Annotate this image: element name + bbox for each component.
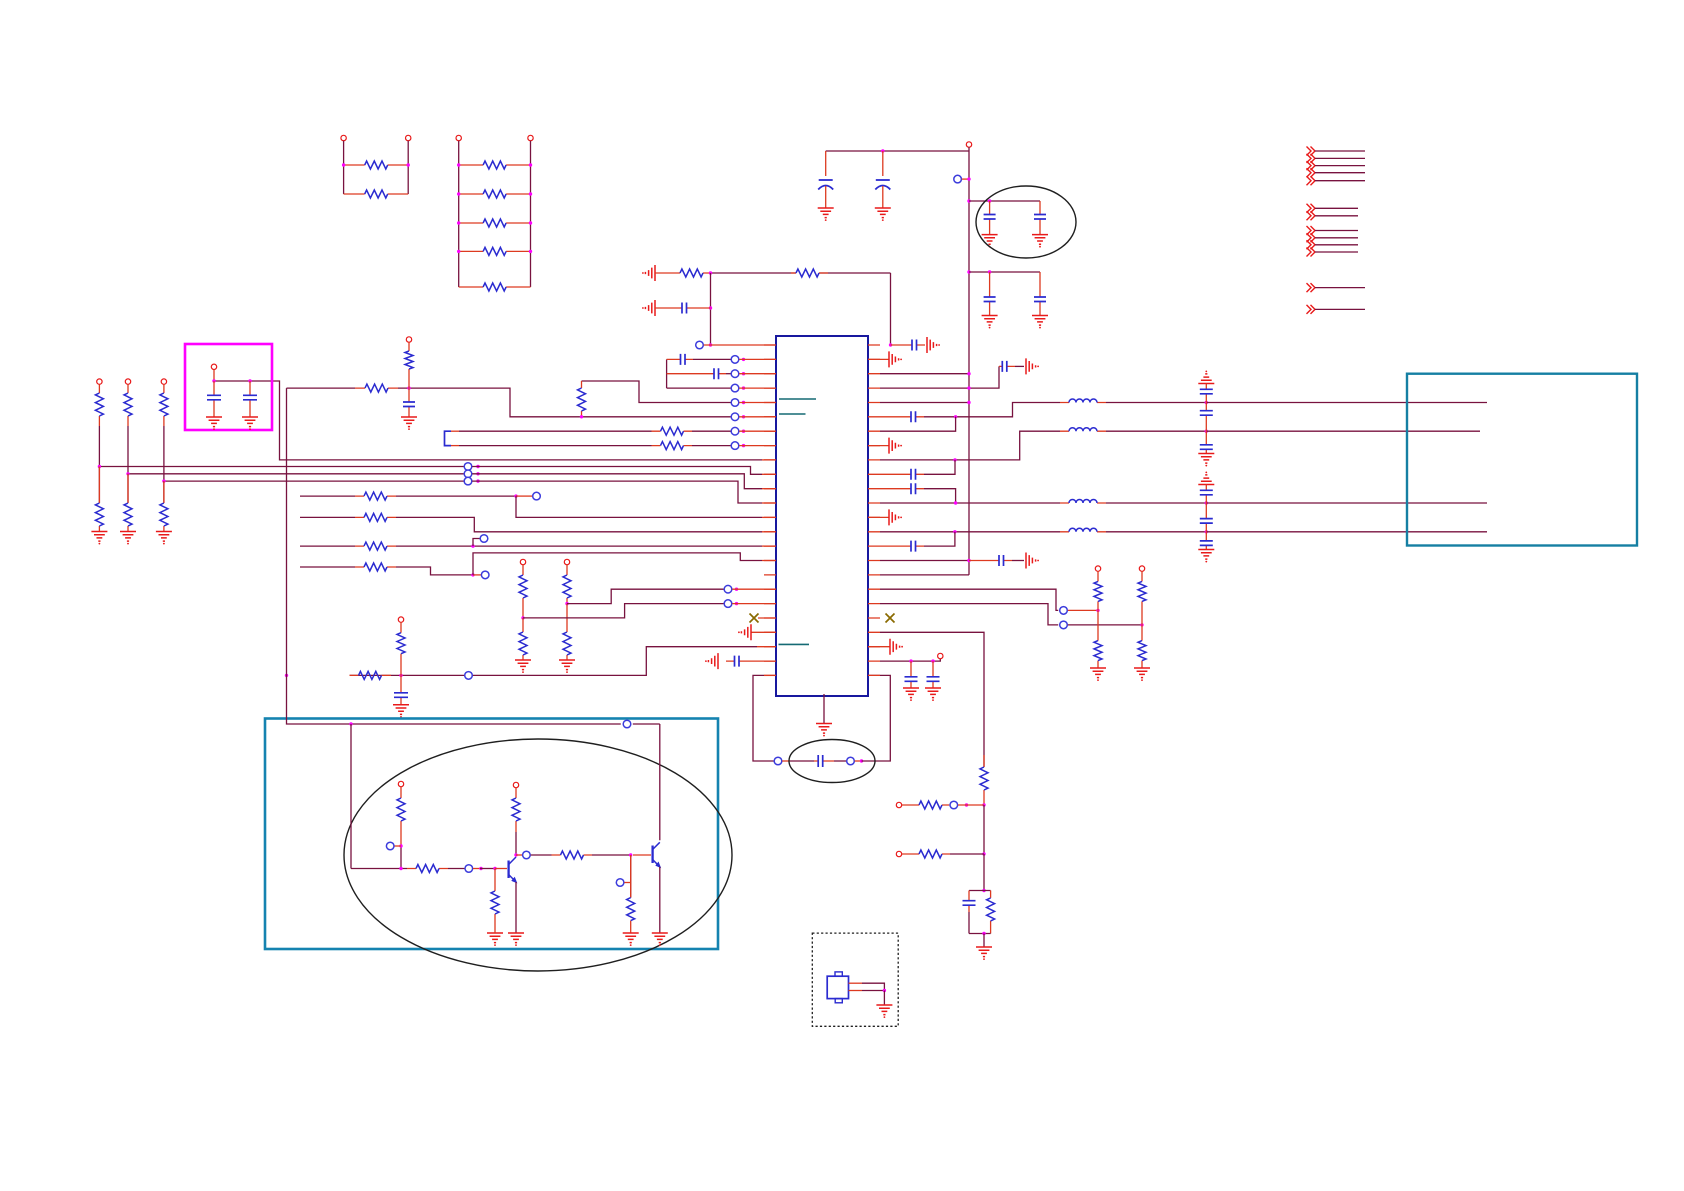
junction: [471, 544, 474, 547]
ground: [1090, 668, 1106, 681]
junction: [909, 659, 912, 662]
wire power rail vertical: [968, 151, 970, 575]
junction: [742, 372, 745, 375]
wire xtal out2: [849, 990, 863, 992]
wire row446b: [692, 445, 731, 447]
wire bus2b: [472, 474, 762, 489]
wire pin2R stub: [868, 358, 889, 360]
resistor R33: [407, 868, 448, 870]
junction: [529, 221, 532, 224]
junction: [735, 602, 738, 605]
transistor Q1: [507, 861, 509, 879]
junction: [889, 343, 892, 346]
wire off-page E1: [1315, 308, 1365, 310]
junction: [1205, 501, 1208, 504]
junction: [709, 343, 712, 346]
wire row546b: [396, 545, 762, 547]
wire pin13R stub: [868, 516, 889, 518]
wire pin14R net: [880, 531, 1060, 533]
resistor R2: [344, 193, 409, 195]
wire xtal loop left: [753, 675, 774, 761]
wire tp stub: [624, 882, 630, 884]
wire r34 gnd: [494, 925, 496, 933]
ground (left-facing): [738, 624, 751, 640]
ellipse highlight 1: [976, 186, 1076, 258]
wire pin3L stub: [739, 373, 776, 375]
ground: [623, 933, 639, 946]
terminal VCC: [966, 142, 971, 147]
wire base mid3: [480, 868, 495, 870]
ground: [393, 705, 409, 718]
wire pin4L stub: [739, 387, 776, 389]
resistor R16: [355, 516, 396, 518]
junction: [735, 588, 738, 591]
wire rc gnd stub: [983, 934, 985, 948]
junction: [883, 989, 886, 992]
wire xtal loop right: [862, 675, 891, 761]
wire off-page A2: [1315, 157, 1365, 159]
ground: [242, 417, 258, 430]
U1 internal mark 2: [779, 413, 806, 415]
wire row496b: [396, 495, 516, 497]
wire pin4R: [880, 366, 999, 388]
ground: [1134, 668, 1150, 681]
junction: [285, 674, 288, 677]
wire pin15R jog: [924, 532, 955, 546]
bus inline circle: [464, 477, 472, 485]
terminal P7: [564, 559, 569, 564]
wire divider1 upper: [98, 426, 100, 467]
junction: [514, 853, 517, 856]
crystal Y1: [827, 976, 848, 998]
junction: [493, 867, 496, 870]
off-page connector chevron C4: [1307, 248, 1316, 257]
capacitor C13: [814, 760, 834, 762]
bus inline circle: [464, 470, 472, 478]
ground: [1032, 235, 1048, 248]
capacitor C11: [400, 675, 402, 704]
ground: [487, 933, 503, 946]
wire r-pullup2 link: [1068, 624, 1142, 626]
junction: [399, 867, 402, 870]
terminal P3: [456, 135, 461, 140]
ground: [156, 532, 172, 545]
ellipse highlight 2: [344, 739, 732, 971]
resistor R15: [355, 495, 396, 497]
wire pin16L stub: [762, 560, 776, 562]
wire row603 jog: [567, 589, 724, 603]
wire q1 col stub: [516, 854, 522, 856]
wire off-page A3: [1315, 165, 1365, 167]
junction: [982, 889, 985, 892]
ground (right-facing): [890, 639, 903, 655]
resistor R32: [990, 891, 992, 934]
wire pin8L stub: [739, 445, 776, 447]
wire row675a: [350, 674, 402, 676]
capacitor C16: [880, 416, 924, 418]
wire feedback top: [582, 381, 731, 403]
junction: [742, 358, 745, 361]
wire pin21R down: [880, 632, 984, 767]
inline circle on rail: [954, 175, 962, 183]
ground: [982, 235, 998, 248]
ground (right-facing): [889, 509, 902, 525]
junction: [580, 415, 583, 418]
terminal P20: [398, 781, 403, 786]
ground: [1198, 550, 1214, 563]
wire col row a: [531, 854, 552, 856]
off-page connector chevron A3: [1307, 161, 1316, 170]
pin connector circle: [731, 399, 739, 407]
wire row805: [958, 804, 984, 806]
wire pin22L: [757, 646, 776, 648]
wire pin7L stub: [739, 430, 776, 432]
U1 internal mark 3: [779, 643, 810, 645]
wire into connector C: [1206, 502, 1487, 504]
wire xtal lead1: [782, 760, 790, 762]
junction: [953, 530, 956, 533]
terminal P1: [341, 135, 346, 140]
junction: [212, 379, 215, 382]
wire bus2a: [128, 473, 464, 475]
test point circle: [480, 535, 488, 543]
resistor R13: [652, 430, 693, 432]
wire tp jog: [473, 539, 480, 547]
wire rc down1: [983, 805, 985, 854]
U1 internal mark 1: [779, 398, 816, 400]
junction: [457, 221, 460, 224]
ground: [876, 1005, 892, 1018]
inline circle: [1060, 607, 1068, 615]
junction: [529, 192, 532, 195]
pin connector circle: [731, 442, 739, 450]
capacitor C23: [968, 891, 970, 913]
junction: [399, 674, 402, 677]
junction: [967, 270, 970, 273]
ground: [976, 947, 992, 960]
resistor R10: [581, 381, 583, 417]
resistor R6: [459, 250, 531, 252]
resistor R36: [552, 854, 593, 856]
wire r44 down: [400, 846, 402, 869]
capacitor C4: [1039, 201, 1041, 235]
capacitor C10: [408, 388, 410, 417]
ground: [925, 688, 941, 701]
wire r-pullup1 link: [1068, 609, 1098, 611]
junction: [457, 192, 460, 195]
test point circle: [481, 571, 489, 579]
junction: [967, 177, 970, 180]
junction: [954, 501, 957, 504]
ground: [508, 933, 524, 946]
wire row567a: [300, 566, 355, 568]
resistor R40: [127, 384, 129, 426]
capacitor C18: [880, 488, 924, 490]
ground (right-facing): [1026, 358, 1039, 374]
terminal P18: [161, 379, 166, 384]
terminal P2: [406, 135, 411, 140]
junction: [1140, 623, 1143, 626]
junction: [988, 270, 991, 273]
U1 left pin stubs: [764, 345, 776, 675]
op-amp U1 main IC body: [776, 336, 868, 696]
wire xtal out1b: [862, 983, 884, 990]
inline circle: [616, 879, 624, 887]
junction: [529, 250, 532, 253]
pin connector circle: [731, 427, 739, 435]
wire row567b: [396, 567, 473, 575]
ground (left-facing): [642, 265, 655, 281]
off-page connector chevron C1: [1307, 226, 1316, 235]
junction: [407, 163, 410, 166]
junction: [1205, 430, 1208, 433]
wire bus1b: [472, 467, 762, 475]
capacitor C25: [249, 381, 251, 409]
wire xtal gnd stub: [883, 991, 885, 1006]
wire base drop: [351, 724, 407, 869]
inline circle: [623, 720, 631, 728]
wire ladder1 right rail: [407, 141, 409, 194]
wire c15 to gnd: [1015, 365, 1024, 367]
wire pin14L stub: [762, 531, 776, 533]
wire c25 gnd: [249, 409, 251, 417]
junction: [982, 932, 985, 935]
wire q2 base lead: [633, 854, 651, 856]
wire pin18L stub: [732, 588, 776, 590]
wire off-page C3: [1315, 244, 1358, 246]
wire ladder2 left rail: [458, 141, 460, 287]
wire into connector D: [1206, 531, 1487, 533]
terminal P4: [528, 135, 533, 140]
wire ladder2 right rail: [530, 141, 532, 287]
wire pin9L stub: [762, 459, 776, 461]
wire divider3 lower: [163, 481, 165, 503]
wire divider1 lower: [98, 467, 100, 504]
wire off-page A1: [1315, 150, 1365, 152]
wire pin23L stub: [748, 660, 776, 662]
ground (right-facing): [889, 438, 902, 454]
ground: [818, 208, 834, 221]
resistor R31: [902, 853, 950, 855]
junction: [742, 430, 745, 433]
wire pin9R net: [880, 431, 1060, 460]
ground (up-facing): [1198, 371, 1214, 384]
resistor R3: [459, 164, 531, 166]
inline circle: [465, 865, 473, 873]
wire off-page C4: [1315, 251, 1358, 253]
resistor R5: [459, 222, 531, 224]
dotted enclosure box: [812, 933, 898, 1026]
inline circle: [950, 801, 958, 809]
wire divider3 upper: [163, 426, 165, 481]
capacitor C22: [932, 661, 934, 688]
ground: [875, 208, 891, 221]
transistor Q2: [651, 846, 653, 864]
wire pin3R: [880, 373, 969, 375]
ground: [91, 532, 107, 545]
resistor R9: [791, 272, 828, 274]
wire pin18R net: [880, 589, 1058, 610]
capacitor C1 polarized: [825, 151, 827, 176]
inline circle: [847, 757, 855, 765]
wire row567 jog: [473, 553, 762, 575]
wire chain top: [711, 273, 891, 345]
wire row646 jog: [401, 647, 757, 676]
no-connect X: [750, 614, 759, 623]
resistor R7: [459, 286, 531, 288]
ground: [1032, 316, 1048, 329]
wire q1 emitter: [515, 882, 517, 933]
wire pin17R: [880, 574, 969, 576]
wire L3 to coupling: [1106, 502, 1206, 504]
inductor L2: [1060, 430, 1106, 432]
ground: [120, 532, 136, 545]
resistor R17: [355, 545, 396, 547]
junction: [1205, 530, 1208, 533]
test point circle: [533, 492, 541, 500]
wire row854: [950, 853, 984, 855]
capacitor C3: [989, 201, 991, 235]
ground (left-facing): [642, 300, 655, 316]
wire row2: [693, 358, 731, 360]
inline circle: [1060, 621, 1068, 629]
wire L4 to coupling: [1106, 531, 1206, 533]
wire rc down2: [983, 854, 985, 891]
resistor R39: [98, 467, 100, 532]
resistor R37: [630, 855, 632, 925]
inductor L4: [1060, 531, 1106, 533]
wire row546a: [300, 545, 355, 547]
wire off-page A5: [1315, 180, 1365, 182]
inline circle: [523, 851, 531, 859]
wire pin15L stub: [762, 545, 776, 547]
wire bypass group2: [969, 271, 1040, 273]
wire pin7R: [880, 417, 956, 431]
junction: [476, 479, 479, 482]
junction: [881, 149, 884, 152]
resistor R30: [902, 804, 949, 806]
wire row618 jog: [523, 604, 724, 618]
ground: [559, 660, 575, 673]
junction: [931, 659, 934, 662]
wire pin11R jog: [924, 489, 956, 503]
junction: [457, 163, 460, 166]
capacitor C20: [969, 560, 1012, 562]
inline circle: [386, 842, 394, 850]
wire c20 to gnd: [1012, 560, 1024, 562]
wire off-page B1: [1315, 207, 1358, 209]
ground (right-facing): [1026, 553, 1039, 569]
capacitor C2 polarized: [882, 151, 884, 176]
junction: [479, 867, 482, 870]
wire to U1 pin1L: [704, 344, 776, 346]
wire xtal out1: [849, 982, 863, 984]
wire box-out: [214, 381, 762, 460]
resistor R38: [98, 384, 100, 426]
wire pin16R: [880, 560, 969, 562]
wire pin10L stub: [762, 473, 776, 475]
wire r37 gnd: [630, 925, 632, 933]
terminal P12: [896, 802, 901, 807]
wire pin2L stub: [739, 358, 776, 360]
capacitor C30: [1205, 503, 1207, 532]
wire divider2 upper: [127, 426, 129, 474]
off-page connector chevron B1: [1307, 204, 1316, 213]
junction: [457, 250, 460, 253]
junction: [521, 616, 524, 619]
terminal P17: [125, 379, 130, 384]
junction: [342, 163, 345, 166]
resistor R24: [400, 622, 402, 675]
capacitor C17: [880, 473, 924, 475]
resistor R26: [1097, 610, 1099, 668]
wire term drop: [213, 370, 215, 382]
wire pin12L stub: [762, 502, 776, 504]
capacitor C29: [1205, 485, 1207, 504]
junction: [860, 759, 863, 762]
ground: [1198, 454, 1214, 467]
junction: [742, 386, 745, 389]
ground: [816, 724, 832, 737]
off-page connector chevron E1: [1307, 305, 1316, 314]
wire pin13L stub: [762, 516, 776, 518]
wire L2 to coupling: [1106, 430, 1206, 432]
capacitor C7: [655, 307, 711, 309]
wire rail tp stub: [962, 178, 969, 180]
off-page connector chevron D1: [1307, 283, 1316, 292]
wire L1 to coupling: [1106, 402, 1206, 404]
resistor R41: [127, 474, 129, 532]
resistor R8: [655, 272, 711, 274]
ground: [206, 417, 222, 430]
wire row496 jog: [516, 496, 762, 517]
junction: [407, 386, 410, 389]
capacitor C26: [1205, 384, 1207, 403]
pin connector circle: [731, 370, 739, 378]
capacitor C5: [989, 272, 991, 316]
inline circle on rail: [621, 722, 633, 727]
wire pin19L stub: [732, 603, 776, 605]
off-page connector chevron C2: [1307, 233, 1316, 242]
wire bus3a: [164, 480, 464, 482]
capacitor C28: [1205, 431, 1207, 453]
connector box J2: [1407, 374, 1637, 546]
resistor R18: [355, 566, 396, 568]
off-page connector chevron C3: [1307, 240, 1316, 249]
terminal P11: [1139, 566, 1144, 571]
ground: [515, 660, 531, 673]
inline circle: [465, 672, 473, 680]
wire rc bottom rail: [969, 933, 991, 935]
junction: [471, 573, 474, 576]
pin connector circle: [696, 341, 704, 349]
junction: [514, 494, 517, 497]
resistor R20: [522, 618, 524, 660]
wire tp stub: [473, 574, 481, 576]
junction: [982, 803, 985, 806]
wire xtal out2b: [862, 990, 884, 992]
wire pin11L stub: [762, 488, 776, 490]
resistor R44: [400, 787, 402, 846]
junction: [742, 444, 745, 447]
resistor R23: [350, 674, 392, 676]
resistor R43: [163, 481, 165, 531]
terminal P15: [211, 364, 216, 369]
wire into connector B: [1206, 430, 1480, 432]
wire pin8R stub: [868, 445, 889, 447]
ground (left-facing): [705, 653, 718, 669]
capacitor C15: [999, 365, 1015, 367]
